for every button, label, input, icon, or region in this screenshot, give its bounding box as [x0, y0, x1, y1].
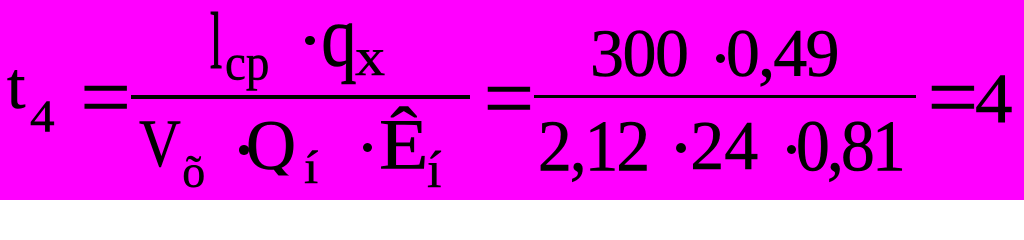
denominator Q [246, 110, 296, 181]
fraction bar 2 [534, 95, 916, 98]
equals sign 1 [80, 53, 131, 143]
equals sign 2 [484, 54, 535, 144]
subscript i-acute 1 [304, 145, 318, 192]
subscript x [355, 30, 385, 84]
subscript 4 [30, 94, 55, 140]
denominator V [139, 110, 181, 178]
denominator 0,81 [796, 109, 903, 182]
middle dot denominator 2b [787, 145, 796, 154]
variable t [7, 53, 26, 120]
denominator 2,12 [538, 109, 648, 182]
variable q [321, 0, 357, 81]
middle dot denominator 1a [239, 145, 249, 155]
numerator 0,49 [726, 19, 838, 87]
middle dot numerator 2 [716, 54, 725, 63]
numerator 300 [590, 19, 688, 87]
middle dot denominator 1b [363, 143, 373, 153]
denominator E-circumflex [379, 109, 428, 181]
middle dot denominator 2a [676, 143, 686, 153]
subscript cp [225, 38, 269, 89]
subscript o-tilde [182, 149, 205, 195]
fraction bar 1 [131, 95, 470, 99]
middle dot numerator 1 [305, 36, 315, 46]
denominator 24 [690, 110, 758, 180]
result 4 [975, 64, 1013, 135]
subscript i-acute 2 [427, 145, 441, 197]
numerator l [210, 2, 222, 82]
equals sign 3 [928, 53, 979, 143]
